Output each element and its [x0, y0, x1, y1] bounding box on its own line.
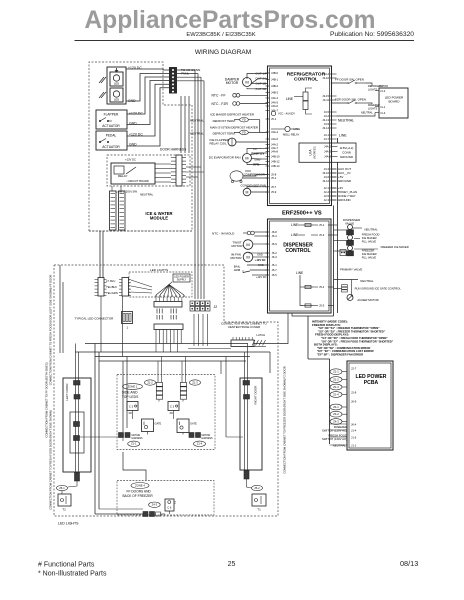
- svg-text:CONTROL: CONTROL: [294, 77, 318, 83]
- svg-text:CONNECTION FROM CABINET TO FRE: CONNECTION FROM CABINET TO FRESH FOOD DO…: [49, 275, 53, 386]
- svg-text:J1-2: J1-2: [380, 89, 386, 93]
- svg-text:Z1-2: Z1-2: [333, 378, 339, 382]
- svg-text:J4A-8: J4A-8: [324, 155, 332, 159]
- svg-text:J3-9: J3-9: [324, 122, 330, 126]
- svg-text:Z6-2: Z6-2: [254, 486, 260, 490]
- svg-text:Z1-2: Z1-2: [147, 380, 153, 384]
- svg-text:"EF" BF" : DISPENSER FAN ERROR: "EF" BF" : DISPENSER FAN ERROR: [317, 353, 363, 357]
- svg-text:J6-3: J6-3: [272, 255, 278, 259]
- svg-text:PWM+12V: PWM+12V: [251, 152, 264, 156]
- svg-text:HARNESS: HARNESS: [202, 437, 214, 440]
- svg-text:Z4-2: Z4-2: [333, 412, 339, 416]
- svg-text:J6-4: J6-4: [272, 234, 278, 238]
- svg-text:C 3: C 3: [170, 405, 175, 409]
- svg-text:FF DOOR SW. OPEN: FF DOOR SW. OPEN: [335, 78, 364, 82]
- svg-text:M: M: [246, 190, 249, 194]
- svg-text:CONNECTION FROM CABINET TO FF: CONNECTION FROM CABINET TO FF DOOR (BOTH…: [45, 362, 49, 437]
- svg-text:UI A: UI A: [309, 149, 313, 156]
- svg-text:ZONE 4: ZONE 4: [135, 484, 145, 488]
- svg-text:ACTUATOR: ACTUATOR: [102, 145, 120, 149]
- svg-text:FF: FF: [129, 411, 133, 415]
- svg-text:LED LIGHTS: LED LIGHTS: [150, 268, 168, 272]
- svg-text:DEFROST TERM.: DEFROST TERM.: [213, 132, 236, 136]
- svg-text:SWITCH (120V AC): SWITCH (120V AC): [322, 429, 347, 433]
- svg-text:J1-1: J1-1: [351, 444, 357, 448]
- svg-text:VCC - AUX(DY: VCC - AUX(DY: [278, 112, 295, 116]
- svg-text:J3-11: J3-11: [322, 98, 329, 102]
- svg-text:J6-9: J6-9: [351, 400, 357, 404]
- svg-text:Z1-3: Z1-3: [192, 380, 198, 384]
- svg-text:Z1-4: Z1-4: [333, 393, 339, 397]
- svg-text:MOTOR: MOTOR: [232, 244, 243, 248]
- svg-text:J3-13: J3-13: [322, 118, 329, 122]
- svg-text:MOTOR: MOTOR: [226, 81, 239, 85]
- svg-text:# Functional Parts: # Functional Parts: [38, 562, 95, 569]
- svg-text:SIDE AND: SIDE AND: [122, 390, 138, 394]
- svg-text:J4A-3: J4A-3: [324, 150, 332, 154]
- svg-text:C 6: C 6: [167, 506, 172, 510]
- svg-text:LINE: LINE: [286, 97, 294, 101]
- svg-text:GROUND: GROUND: [340, 155, 353, 159]
- svg-text:DOOR HARNESS: DOOR HARNESS: [160, 148, 187, 152]
- svg-text:J2-5: J2-5: [324, 194, 330, 198]
- svg-text:ICE MAKER DEFROST HEATER: ICE MAKER DEFROST HEATER: [210, 112, 254, 116]
- svg-text:ACTUATOR: ACTUATOR: [102, 124, 120, 128]
- svg-text:J2-8: J2-8: [351, 391, 357, 395]
- svg-text:CONN: CONN: [342, 151, 351, 155]
- svg-text:J3-4: J3-4: [324, 72, 330, 76]
- svg-text:Publication No: 5995636320: Publication No: 5995636320: [330, 31, 414, 38]
- svg-text:NTC - FZR: NTC - FZR: [212, 102, 229, 106]
- svg-text:CONNECTION FROM CABINET TO FRE: CONNECTION FROM CABINET TO FRESH FOOD DO…: [49, 410, 53, 510]
- svg-text:J4A-4: J4A-4: [271, 96, 279, 100]
- svg-text:J1-1: J1-1: [380, 105, 386, 109]
- svg-text:J4B-3: J4B-3: [271, 91, 279, 95]
- svg-text:CENTER HINGE COVER: CENTER HINGE COVER: [228, 325, 260, 329]
- svg-text:J1-3: J1-3: [380, 111, 386, 115]
- svg-text:EW23BC85K / EI23BC35K: EW23BC85K / EI23BC35K: [186, 32, 255, 38]
- svg-text:J4A-6: J4A-6: [271, 137, 279, 141]
- svg-text:J5-1: J5-1: [271, 176, 277, 180]
- svg-text:25: 25: [228, 561, 236, 568]
- svg-text:J5-4: J5-4: [319, 285, 325, 289]
- svg-text:YEL/GRN: YEL/GRN: [106, 291, 118, 295]
- svg-text:LED: LED: [114, 82, 119, 86]
- svg-text:AppliancePartsPros.com: AppliancePartsPros.com: [84, 7, 375, 34]
- svg-text:LED: LED: [114, 98, 119, 102]
- svg-text:NTC - IM MOLD: NTC - IM MOLD: [212, 232, 235, 236]
- svg-text:FLAPPER: FLAPPER: [104, 113, 119, 117]
- svg-text:MODULE: MODULE: [150, 216, 168, 221]
- svg-text:FILL VALVE: FILL VALVE: [362, 256, 376, 260]
- svg-text:J5-8: J5-8: [271, 173, 277, 177]
- svg-text:LINE: LINE: [296, 271, 304, 275]
- svg-text:Z1-4: Z1-4: [197, 442, 203, 446]
- svg-text:WIRING DIAGRAM: WIRING DIAGRAM: [195, 49, 251, 56]
- svg-text:NEUTRAL: NEUTRAL: [190, 119, 204, 123]
- svg-text:J3-1: J3-1: [324, 133, 330, 137]
- svg-text:J3-16: J3-16: [322, 171, 329, 175]
- svg-text:LEFT DOOR: LEFT DOOR: [65, 384, 69, 401]
- svg-text:J5-5: J5-5: [319, 304, 325, 308]
- svg-text:+12V DC: +12V DC: [255, 258, 266, 262]
- svg-text:TYPICAL LED CONNECTOR: TYPICAL LED CONNECTOR: [75, 316, 114, 320]
- svg-text:J3-15: J3-15: [322, 94, 329, 98]
- svg-text:FD: FD: [242, 119, 245, 122]
- svg-text:MAIN SYSTEM DEFROST HEATER: MAIN SYSTEM DEFROST HEATER: [210, 126, 258, 130]
- svg-text:Z6-1: Z6-1: [59, 486, 65, 490]
- svg-text:FF: FF: [170, 411, 174, 415]
- svg-text:NEUTRAL: NEUTRAL: [338, 119, 354, 123]
- svg-text:J4A-8: J4A-8: [271, 150, 279, 154]
- svg-text:ARM: ARM: [234, 268, 241, 272]
- svg-text:* Non-Illustrated Parts: * Non-Illustrated Parts: [38, 571, 107, 578]
- svg-text:DEFROST TERM.: DEFROST TERM.: [213, 119, 236, 123]
- svg-text:NEUTRAL: NEUTRAL: [140, 193, 154, 197]
- svg-text:FD: FD: [242, 131, 245, 134]
- svg-text:LED LIGHTS: LED LIGHTS: [58, 522, 79, 526]
- svg-text:J5-9: J5-9: [271, 190, 277, 194]
- svg-text:LINE: LINE: [291, 223, 299, 227]
- svg-text:GROUND: GROUND: [338, 198, 351, 202]
- svg-text:J2-3: J2-3: [324, 198, 330, 202]
- svg-text:J4A-4: J4A-4: [271, 130, 279, 134]
- svg-text:NTC - FF: NTC - FF: [212, 93, 226, 97]
- svg-text:LINE: LINE: [339, 134, 347, 138]
- svg-text:CONTROL: CONTROL: [285, 248, 310, 254]
- svg-text:LT. BLU: LT. BLU: [106, 279, 115, 283]
- svg-text:J6-8: J6-8: [272, 230, 278, 234]
- svg-text:J2-1: J2-1: [324, 186, 330, 190]
- svg-text:HARNESS: HARNESS: [132, 437, 144, 440]
- svg-text:T2: T2: [62, 508, 66, 512]
- svg-text:YEL/BLK: YEL/BLK: [106, 285, 117, 289]
- svg-text:F9: F9: [253, 147, 257, 151]
- svg-text:LOW (120V) SW: LOW (120V) SW: [116, 190, 137, 194]
- svg-text:115V(+12): 115V(+12): [340, 146, 354, 150]
- svg-text:J6-4: J6-4: [351, 423, 357, 427]
- svg-text:J3-10: J3-10: [322, 76, 329, 80]
- svg-text:ERF2500++ VS: ERF2500++ VS: [282, 211, 322, 217]
- svg-text:+12V DC: +12V DC: [128, 66, 142, 70]
- svg-text:J6-1: J6-1: [272, 263, 278, 267]
- svg-text:J5-1: J5-1: [319, 223, 325, 227]
- svg-text:AUGER MOTOR: AUGER MOTOR: [357, 298, 378, 302]
- svg-text:DC EVAPORATOR FAN: DC EVAPORATOR FAN: [209, 155, 241, 159]
- svg-text:CONNECTION FROM CABINET TO FRE: CONNECTION FROM CABINET TO FREEZER DOOR …: [283, 366, 287, 473]
- svg-text:Z1-1: Z1-1: [131, 442, 137, 446]
- svg-text:FREEZER ICE MAKER: FREEZER ICE MAKER: [381, 245, 409, 249]
- svg-text:MOTOR: MOTOR: [231, 256, 242, 260]
- svg-text:J6-5: J6-5: [272, 273, 278, 277]
- svg-text:J5-3: J5-3: [319, 233, 325, 237]
- svg-text:J5-1: J5-1: [271, 117, 277, 121]
- svg-text:08/13: 08/13: [400, 559, 418, 568]
- svg-text:FZR DOOR SW. OPEN: FZR DOOR SW. OPEN: [335, 98, 366, 102]
- svg-text:LIGHTS: LIGHTS: [368, 88, 378, 92]
- svg-text:NEUTRAL: NEUTRAL: [361, 111, 373, 115]
- svg-text:PRIMARY VALVE: PRIMARY VALVE: [340, 268, 362, 272]
- svg-text:Z1-3: Z1-3: [333, 385, 339, 389]
- svg-text:(ROTATED): (ROTATED): [314, 146, 317, 159]
- svg-text:J4A-2: J4A-2: [271, 143, 279, 147]
- svg-text:J4B-2: J4B-2: [271, 84, 279, 88]
- svg-text:J3-12: J3-12: [322, 179, 329, 183]
- svg-text:J4B-0: J4B-0: [271, 71, 279, 75]
- svg-text:LIGHTS: LIGHTS: [368, 107, 378, 111]
- svg-text:T1: T1: [257, 508, 261, 512]
- svg-text:J6-9: J6-9: [272, 242, 278, 246]
- svg-text:J6-2: J6-2: [272, 251, 278, 255]
- svg-text:FRESH FOOD: FRESH FOOD: [362, 233, 380, 237]
- svg-text:MATING: MATING: [202, 434, 211, 437]
- svg-text:J3-6: J3-6: [324, 175, 330, 179]
- svg-text:SUPPLY: SUPPLY: [177, 278, 187, 281]
- svg-text:RELAY COIL: RELAY COIL: [210, 142, 228, 146]
- svg-text:NEUTRAL: NEUTRAL: [190, 131, 204, 135]
- svg-text:NEUTRAL: NEUTRAL: [333, 444, 347, 448]
- svg-text:ZONE 1: ZONE 1: [128, 385, 138, 389]
- svg-text:PCBA: PCBA: [364, 380, 379, 386]
- svg-text:J3-7: J3-7: [324, 137, 330, 141]
- svg-text:GATE: GATE: [190, 422, 197, 426]
- svg-text:J2-7: J2-7: [351, 367, 357, 371]
- svg-text:J4A-5: J4A-5: [271, 101, 279, 105]
- svg-text:MDLL RELAY: MDLL RELAY: [283, 133, 300, 137]
- svg-text:J3-2: J3-2: [324, 114, 330, 118]
- svg-text:TOP LEDS: TOP LEDS: [122, 395, 139, 399]
- svg-text:J4B-1: J4B-1: [271, 78, 279, 82]
- svg-text:J5-7: J5-7: [271, 185, 277, 189]
- svg-text:RELAY: RELAY: [118, 174, 128, 178]
- svg-text:J4A-7: J4A-7: [271, 146, 279, 150]
- svg-text:NEUTRAL: NEUTRAL: [365, 228, 379, 232]
- svg-text:- CIRCUIT BOARD: - CIRCUIT BOARD: [126, 179, 149, 183]
- svg-text:SWITCH (120V AC): SWITCH (120V AC): [322, 437, 347, 441]
- svg-text:J3-5: J3-5: [324, 110, 330, 114]
- svg-text:+12V DC: +12V DC: [125, 158, 136, 162]
- svg-text:GATE: GATE: [155, 422, 162, 426]
- svg-text:J3-3: J3-3: [324, 167, 330, 171]
- svg-text:ICE MAKER: ICE MAKER: [362, 252, 377, 256]
- svg-text:LINE: LINE: [291, 233, 299, 237]
- svg-text:J1-4: J1-4: [351, 429, 357, 433]
- svg-text:PEDAL: PEDAL: [106, 134, 117, 138]
- svg-text:GROUND: GROUND: [338, 179, 351, 183]
- svg-text:ICE MAKER: ICE MAKER: [362, 236, 377, 240]
- svg-text:J4B-14: J4B-14: [271, 164, 280, 168]
- svg-text:LATCH: LATCH: [257, 333, 266, 337]
- svg-text:RIGHT DOOR: RIGHT DOOR: [254, 386, 258, 405]
- svg-text:M: M: [245, 157, 248, 161]
- svg-text:J4A-6: J4A-6: [271, 104, 279, 108]
- svg-text:NEUTRAL: NEUTRAL: [360, 279, 374, 283]
- svg-text:GND: GND: [254, 158, 260, 162]
- svg-text:FF DOORS AND: FF DOORS AND: [127, 489, 152, 493]
- svg-text:Z4-3: Z4-3: [152, 503, 158, 507]
- svg-text:RUN /GROUND ICE GATE CONTROL: RUN /GROUND ICE GATE CONTROL: [355, 287, 402, 291]
- svg-text:J3-14: J3-14: [322, 126, 329, 130]
- svg-text:J1-5: J1-5: [351, 436, 357, 440]
- svg-text:GND: GND: [129, 122, 137, 126]
- svg-text:Z4-1: Z4-1: [333, 405, 339, 409]
- svg-text:+12V DC: +12V DC: [129, 112, 143, 116]
- svg-text:BACK OF FREEZER: BACK OF FREEZER: [123, 494, 154, 498]
- svg-text:FILL VALVE: FILL VALVE: [362, 240, 376, 244]
- svg-text:J6-7: J6-7: [272, 268, 278, 272]
- svg-text:+12V DC: +12V DC: [256, 275, 267, 279]
- svg-text:J4B-12: J4B-12: [271, 160, 280, 164]
- svg-text:C 3: C 3: [129, 405, 134, 409]
- svg-text:Z4-3: Z4-3: [333, 420, 339, 424]
- svg-text:J4A-2: J4A-2: [324, 145, 332, 149]
- svg-text:Z1-1: Z1-1: [333, 370, 339, 374]
- svg-text:REFRIGERATOR: REFRIGERATOR: [368, 84, 388, 88]
- svg-text:J2-2: J2-2: [324, 190, 330, 194]
- svg-text:MATING: MATING: [132, 434, 141, 437]
- svg-text:BOARD: BOARD: [388, 100, 400, 104]
- svg-text:J2: J2: [214, 305, 218, 309]
- svg-text:J4B-10: J4B-10: [271, 155, 280, 159]
